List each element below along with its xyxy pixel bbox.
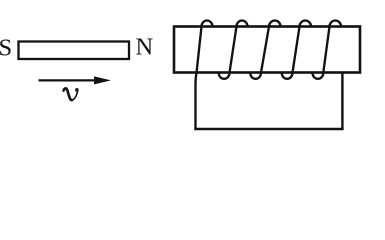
velocity label v (math italic, custom glyph) (64, 88, 72, 100)
coil turn 5 (313, 20, 342, 78)
coil turn 2 (219, 21, 248, 79)
coil turn 1 (with left lead into circuit) (196, 21, 213, 130)
coil core (solenoid body) (174, 27, 360, 73)
coil turn 4 (282, 20, 311, 78)
wire right lead from coil (341, 73, 343, 130)
bar magnet body (19, 42, 130, 60)
svg-text:S: S (0, 35, 12, 62)
wire bottom of circuit loop (194, 128, 343, 131)
velocity arrow shaft (39, 79, 97, 81)
coil turn 3 (250, 20, 280, 78)
svg-text:N: N (135, 34, 153, 61)
velocity arrow head (94, 76, 111, 84)
